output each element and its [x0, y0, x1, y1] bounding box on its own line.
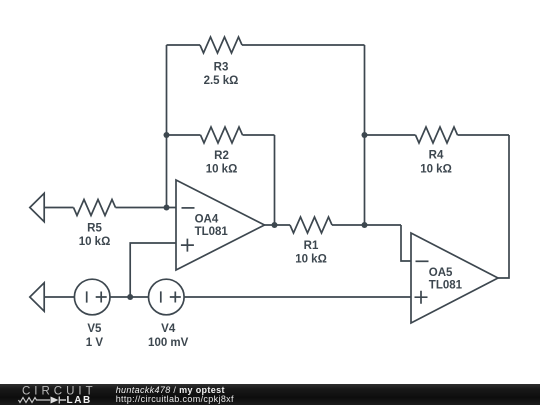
svg-text:1 V: 1 V — [86, 337, 104, 349]
resistor R1 — [290, 217, 332, 233]
resistor R2 — [201, 127, 243, 143]
svg-text:R4: R4 — [429, 150, 444, 162]
footer bar — [0, 384, 540, 405]
wire — [166, 45, 168, 208]
wire — [265, 224, 291, 226]
op-amp OA4 minus sign — [182, 207, 195, 209]
svg-text:TL081: TL081 — [429, 280, 463, 292]
svg-text:TL081: TL081 — [195, 226, 229, 238]
node junction OA4 output — [272, 222, 278, 228]
wire — [458, 134, 510, 136]
resistor R4 — [416, 127, 458, 143]
svg-text:R1: R1 — [304, 240, 319, 252]
V5 polarity marks — [87, 291, 107, 302]
node junction R1 right — [362, 222, 368, 228]
wire — [116, 207, 177, 209]
op-amp OA5 minus sign — [416, 260, 429, 262]
voltage source V4 — [149, 279, 185, 315]
wire — [364, 45, 366, 225]
logo diode symbol — [51, 397, 59, 404]
V4 polarity marks — [161, 291, 181, 302]
wire — [401, 225, 411, 261]
wire — [498, 135, 509, 278]
op-amp OA4 plus sign — [181, 239, 194, 252]
svg-text:10 kΩ: 10 kΩ — [79, 236, 111, 248]
resistor R3 — [200, 37, 242, 53]
svg-text:V4: V4 — [161, 323, 176, 335]
logo diode cathode bar — [59, 397, 66, 404]
svg-text:100 mV: 100 mV — [148, 337, 189, 349]
node junction R5/OA4- bus — [164, 205, 170, 211]
wire — [44, 296, 74, 298]
svg-text:R3: R3 — [214, 62, 229, 74]
svg-text:OA5: OA5 — [429, 267, 453, 279]
wire — [130, 243, 176, 297]
svg-text:10 kΩ: 10 kΩ — [206, 164, 238, 176]
svg-text:http://circuitlab.com/cpkj8xf: http://circuitlab.com/cpkj8xf — [116, 394, 234, 404]
svg-text:2.5 kΩ: 2.5 kΩ — [204, 75, 239, 87]
svg-text:LAB: LAB — [67, 395, 92, 405]
wire — [167, 44, 201, 46]
net flag input A — [30, 193, 44, 221]
svg-text:R2: R2 — [214, 150, 229, 162]
node junction R2 left — [164, 132, 170, 138]
logo resistor squiggle — [19, 398, 51, 403]
node junction V5/V4 — [127, 294, 133, 300]
wire — [167, 134, 201, 136]
wire — [365, 134, 416, 136]
resistor R5 — [74, 200, 116, 216]
wire — [274, 135, 276, 225]
node junction R3/R4 — [362, 132, 368, 138]
op-amp U1 OA4 — [176, 180, 265, 270]
wire — [332, 224, 401, 226]
wire — [243, 134, 275, 136]
svg-text:R5: R5 — [87, 223, 102, 235]
voltage source V5 — [74, 279, 110, 315]
wire — [184, 296, 411, 298]
net flag input B — [30, 283, 44, 311]
svg-text:10 kΩ: 10 kΩ — [420, 164, 452, 176]
wire — [110, 296, 149, 298]
wire — [44, 207, 73, 209]
svg-text:10 kΩ: 10 kΩ — [295, 254, 327, 266]
svg-text:OA4: OA4 — [195, 213, 219, 225]
op-amp U2 OA5 — [411, 233, 498, 323]
svg-text:V5: V5 — [87, 323, 102, 335]
op-amp OA5 plus sign — [415, 291, 428, 304]
wire — [242, 44, 365, 46]
